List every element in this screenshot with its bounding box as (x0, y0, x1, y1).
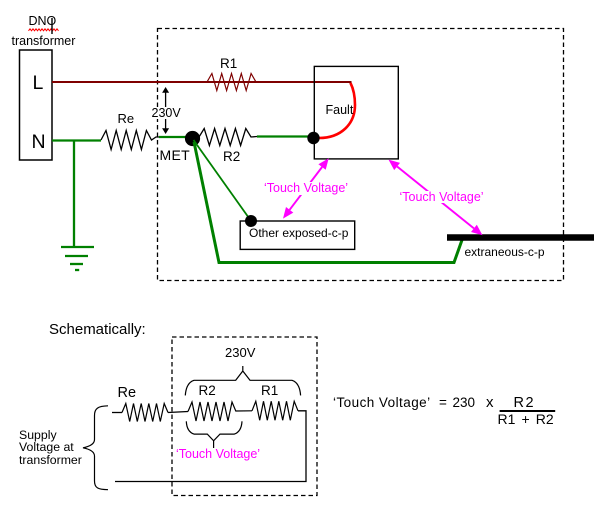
bonding conductor MET to other exposed-c-p (194, 140, 251, 220)
wire right side and bottom schematic (115, 411, 306, 482)
fraction bar of formula (500, 410, 556, 412)
underbrace touch voltage (186, 421, 242, 448)
formula equals sign (439, 396, 447, 410)
resistor Re (101, 131, 160, 150)
touch voltage arrow 1 (283, 158, 329, 218)
supply voltage label (19, 429, 82, 467)
supply voltage brace (83, 406, 108, 490)
extraneous-c-p label (465, 246, 545, 258)
schematic circuit wire loop (112, 412, 122, 414)
wire L (line conductor) (52, 82, 351, 84)
touch voltage label 2 (400, 191, 484, 204)
ground symbol (61, 247, 94, 270)
DNO transformer label (29, 15, 57, 28)
resistor R2 (199, 129, 257, 146)
formula multiply x (486, 395, 494, 410)
installation boundary dashed box (158, 29, 564, 281)
resistor R1 schematic (252, 401, 298, 420)
terminal N label (32, 133, 46, 153)
overbrace 230V (185, 366, 300, 395)
wire N (neutral from transformer) (52, 139, 101, 141)
Schematically label (49, 322, 146, 337)
wire Re to MET (159, 136, 187, 138)
wire R2-R1 schematic (236, 410, 252, 412)
Re value label (118, 112, 135, 125)
node at fault box (307, 132, 319, 144)
R2 schematic label (199, 384, 216, 398)
230V measurement arrow (162, 87, 169, 134)
transformer box (20, 50, 53, 160)
formula numerator R2 (514, 396, 536, 411)
230V schematic label (225, 346, 255, 359)
wire R2 to fault node (257, 135, 312, 137)
extraneous-c-p bar (447, 234, 594, 241)
node MET (185, 131, 200, 146)
resistor R1 (207, 74, 256, 91)
Fault label (326, 104, 354, 117)
earth wire (73, 141, 75, 249)
resistor R2 schematic (188, 402, 236, 421)
formula touch voltage term (333, 396, 431, 410)
other exposed-c-p box (240, 221, 355, 249)
fault box (314, 66, 398, 158)
230V label (152, 107, 181, 120)
touch voltage label 1 (264, 182, 348, 195)
formula denominator R1 + R2 (498, 412, 554, 426)
MET label (160, 148, 190, 162)
R1 schematic label (261, 384, 278, 398)
schematic dashed box (172, 337, 317, 496)
text caret (51, 18, 53, 34)
terminal L label (33, 74, 44, 94)
bonding conductor MET to extraneous-c-p (194, 142, 462, 263)
R1 value label (220, 57, 237, 71)
other exposed-c-p label (249, 227, 348, 239)
resistor Re schematic (122, 404, 168, 422)
node on other exposed-c-p (245, 215, 257, 227)
R2 value label (223, 150, 240, 164)
spellcheck squiggle under DNO (29, 29, 59, 31)
touch voltage arrow 2 (389, 160, 483, 236)
formula 230 (453, 396, 476, 410)
fault current path (red curve) (319, 83, 355, 138)
Re schematic label (118, 386, 137, 401)
touch voltage schematic label (176, 448, 260, 461)
wire Re-R2 schematic (168, 412, 188, 413)
